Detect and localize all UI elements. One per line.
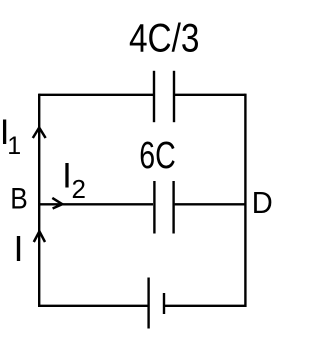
svg-text:D: D <box>252 185 273 220</box>
svg-text:1: 1 <box>7 132 21 160</box>
svg-text:2: 2 <box>72 174 86 204</box>
svg-text:I: I <box>14 228 24 269</box>
svg-text:B: B <box>10 183 28 216</box>
svg-text:6C: 6C <box>139 135 176 177</box>
svg-text:4C/3: 4C/3 <box>129 17 200 61</box>
svg-text:I: I <box>62 156 72 195</box>
